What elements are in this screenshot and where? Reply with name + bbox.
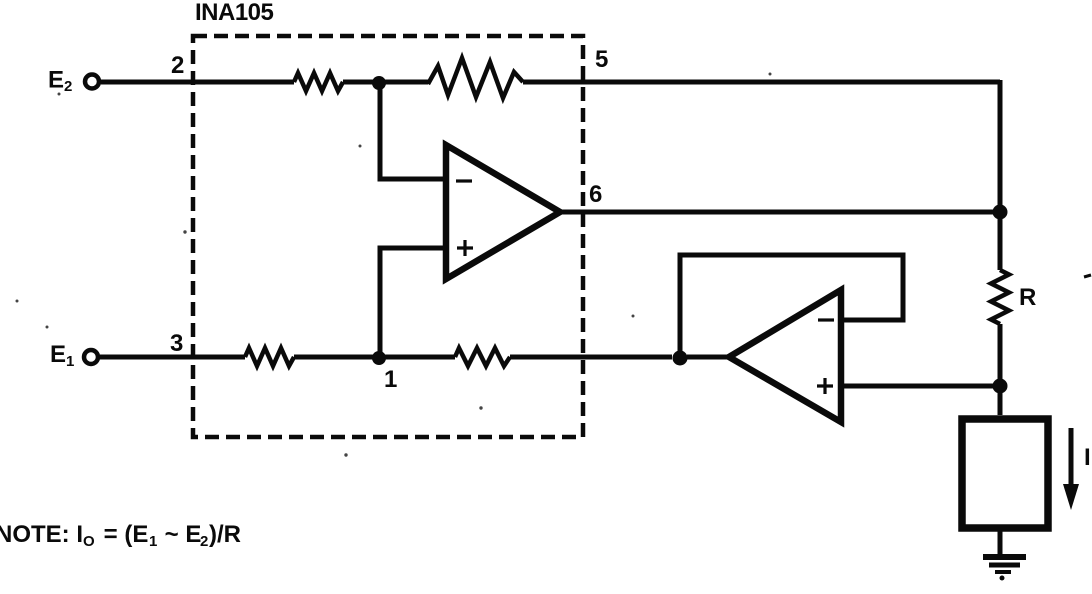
node output junction on right rail bbox=[993, 205, 1008, 220]
node A junction (pin2 net) bbox=[372, 76, 386, 90]
wire U2 noninverting input to node D bbox=[844, 384, 1000, 389]
node D junction bbox=[993, 379, 1008, 394]
label E1 bbox=[50, 341, 74, 370]
svg-text:INA105: INA105 bbox=[195, 0, 274, 26]
svg-text:2: 2 bbox=[200, 533, 208, 550]
svg-text:NOTE: I: NOTE: I bbox=[0, 521, 83, 548]
svg-text:R: R bbox=[1019, 284, 1036, 311]
wire U1 output pin 6 bbox=[558, 210, 1000, 215]
resistor R1 (input, pin 2) bbox=[294, 73, 343, 91]
svg-text:1: 1 bbox=[66, 353, 74, 370]
svg-text:5: 5 bbox=[595, 46, 608, 73]
wire U1 noninverting input to node B bbox=[380, 248, 446, 358]
label E2 bbox=[48, 67, 72, 96]
wire load to ground bbox=[998, 528, 1003, 557]
wire right rail vertical (top) bbox=[998, 80, 1003, 270]
resistor R bbox=[991, 270, 1009, 324]
wire R2 to R3 bbox=[294, 355, 455, 360]
terminal E2 bbox=[85, 75, 99, 89]
ground bbox=[983, 557, 1026, 581]
node C junction bbox=[673, 351, 688, 366]
op-amp U1 bbox=[446, 145, 560, 279]
U2 plus sign bbox=[817, 378, 833, 394]
wire E1 input bbox=[100, 355, 245, 360]
current arrow Io bbox=[1063, 428, 1079, 510]
scan speck dots bbox=[16, 73, 772, 457]
wire R3 to node C bbox=[510, 355, 672, 360]
op-amp U2 (mirrored, output left) bbox=[729, 290, 841, 422]
wire R to node D bbox=[998, 324, 1003, 415]
wire pin 5 to right rail bbox=[523, 80, 1000, 85]
U2 minus sign bbox=[818, 318, 834, 321]
dashed box INA105 bbox=[193, 36, 583, 437]
svg-text:2: 2 bbox=[64, 78, 72, 95]
U1 plus sign bbox=[457, 240, 473, 256]
svg-text:O: O bbox=[83, 533, 95, 550]
svg-text:6: 6 bbox=[589, 181, 602, 208]
note formula bbox=[0, 521, 241, 550]
svg-text:3: 3 bbox=[170, 330, 183, 357]
svg-text:E: E bbox=[50, 341, 66, 368]
load box bbox=[962, 419, 1048, 528]
svg-text:= (E: = (E bbox=[97, 521, 148, 548]
node B (pin 1) bbox=[372, 351, 386, 365]
resistor R2 (input, pin 3) bbox=[245, 348, 294, 366]
stray mark right edge bbox=[1084, 275, 1091, 277]
wire R1 to feedback resistor bbox=[343, 80, 428, 85]
wire E2 input bbox=[101, 80, 294, 85]
resistor Rf (feedback, hand-drawn) bbox=[428, 58, 523, 98]
svg-text:I: I bbox=[1084, 444, 1091, 471]
feedback wire node C to U2 inverting input bbox=[680, 255, 903, 351]
svg-text:1: 1 bbox=[384, 366, 397, 393]
svg-text:)/R: )/R bbox=[209, 521, 241, 548]
svg-text:2: 2 bbox=[171, 52, 184, 79]
svg-text:E: E bbox=[48, 67, 64, 94]
resistor R3 (pin 1 net) bbox=[455, 348, 510, 366]
terminal E1 bbox=[84, 350, 98, 364]
wire node C to U2 output bbox=[687, 355, 731, 360]
svg-text:1: 1 bbox=[149, 533, 157, 550]
U1 minus sign bbox=[456, 179, 472, 182]
svg-text:~ E: ~ E bbox=[158, 521, 201, 548]
wire node A to U1 inverting input bbox=[380, 83, 446, 179]
